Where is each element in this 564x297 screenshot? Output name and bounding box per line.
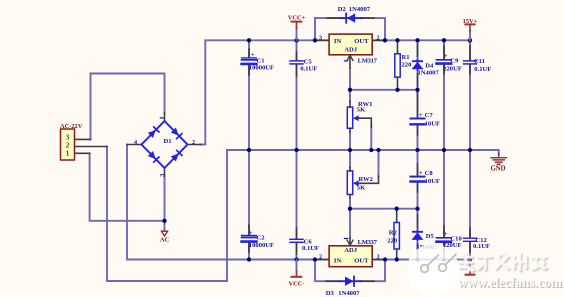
svg-text:GND: GND bbox=[490, 166, 505, 173]
R1 pin stubs bbox=[397, 40, 399, 90]
D5 pin stubs bbox=[417, 214, 419, 256]
junction dots bottom rail bbox=[247, 257, 472, 261]
node AC power port bbox=[160, 231, 170, 243]
svg-text:0.1UF: 0.1UF bbox=[300, 66, 317, 73]
D1 labels bbox=[134, 118, 195, 177]
svg-text:1N4007: 1N4007 bbox=[349, 6, 371, 13]
svg-text:3: 3 bbox=[319, 35, 322, 42]
wire RW2 wiper to mid rail bbox=[378, 150, 380, 177]
resistor R1 bbox=[395, 54, 412, 77]
wire RW1 wiper to mid rail bbox=[370, 126, 372, 150]
svg-text:D2: D2 bbox=[338, 6, 347, 13]
junction dots top rail bbox=[247, 38, 472, 42]
svg-text:C8: C8 bbox=[425, 170, 434, 177]
diode D3 bbox=[326, 277, 361, 297]
capacitor C10 bbox=[437, 230, 463, 249]
RW2 pin stubs bbox=[349, 167, 351, 198]
svg-text:2: 2 bbox=[377, 35, 380, 42]
svg-text:10000UF: 10000UF bbox=[249, 242, 274, 249]
op-amp U1 LM317 regulator box bbox=[319, 34, 380, 65]
wire C6 column bbox=[296, 150, 298, 239]
watermark url text bbox=[458, 275, 563, 291]
svg-text:1: 1 bbox=[66, 148, 70, 157]
D4 pin stubs bbox=[417, 44, 419, 86]
svg-text:4: 4 bbox=[134, 139, 137, 146]
svg-text:220UF: 220UF bbox=[443, 66, 462, 73]
capacitor C7 bbox=[411, 111, 440, 127]
junction dot AC node bbox=[162, 219, 166, 223]
R2 pin stubs bbox=[396, 209, 398, 260]
wire ADJ net horizontal bottom bbox=[350, 208, 418, 210]
svg-text:15V+: 15V+ bbox=[463, 18, 478, 25]
D2 pin stubs bbox=[327, 17, 374, 19]
svg-text:5K: 5K bbox=[357, 107, 366, 114]
power VCC- bbox=[289, 260, 305, 288]
wire connector pin1 to AC node bbox=[90, 153, 165, 221]
svg-text:0.1UF: 0.1UF bbox=[473, 243, 490, 250]
svg-text:C11: C11 bbox=[474, 58, 485, 65]
svg-text:ADJ: ADJ bbox=[344, 46, 358, 53]
svg-text:1N4007: 1N4007 bbox=[418, 70, 440, 77]
svg-text:+: + bbox=[419, 111, 423, 119]
diode D5 bbox=[412, 230, 439, 251]
capacitor C12 bbox=[464, 237, 491, 250]
op-amp U2 LM337 regulator box bbox=[319, 239, 380, 267]
power VCC+ bbox=[288, 14, 306, 40]
svg-text:0.1UF: 0.1UF bbox=[474, 66, 491, 73]
wire top rail bbox=[200, 40, 470, 144]
ground GND bbox=[490, 153, 506, 172]
potentiometer RW2 bbox=[347, 171, 378, 195]
svg-text:+: + bbox=[419, 169, 423, 177]
wire RW2 bottom to ADJ net bbox=[349, 198, 351, 209]
wire ADJ net horizontal top bbox=[350, 89, 418, 91]
wire C9 C10 column bbox=[443, 40, 445, 59]
svg-text:R1: R1 bbox=[402, 54, 410, 61]
capacitor C8 bbox=[411, 169, 440, 185]
svg-text:D3: D3 bbox=[326, 290, 335, 297]
power 15V- bbox=[466, 260, 475, 275]
watermark logo circle bbox=[407, 244, 460, 297]
wire C2 column bbox=[248, 150, 250, 235]
junction dots mid rail bbox=[247, 148, 472, 152]
svg-text:10UF: 10UF bbox=[425, 120, 440, 127]
svg-text:10UF: 10UF bbox=[425, 178, 440, 185]
svg-text:IN: IN bbox=[334, 38, 342, 45]
potentiometer RW1 bbox=[347, 101, 372, 128]
svg-text:D1: D1 bbox=[164, 138, 172, 145]
svg-text:VCC+: VCC+ bbox=[288, 14, 306, 21]
wire bottom rail bbox=[127, 259, 470, 261]
svg-text:3: 3 bbox=[377, 253, 380, 260]
svg-text:D4: D4 bbox=[425, 63, 434, 70]
svg-text:www.elecfans.com: www.elecfans.com bbox=[458, 275, 562, 290]
wire LM317 ADJ down bbox=[349, 68, 351, 101]
svg-text:OUT: OUT bbox=[354, 38, 369, 45]
wire C1 column bbox=[248, 40, 250, 57]
wire C11 C12 column bbox=[469, 40, 471, 60]
svg-text:+: + bbox=[249, 229, 253, 237]
LM337 pin stubs bbox=[315, 238, 385, 260]
capacitor C9 bbox=[437, 52, 462, 72]
svg-text:+: + bbox=[444, 230, 448, 238]
svg-text:LM337: LM337 bbox=[358, 239, 378, 246]
wire D2 bypass loop bbox=[315, 18, 340, 40]
connector J AC-22V pin stubs bbox=[75, 139, 108, 153]
wire LM337 ADJ up bbox=[349, 209, 351, 238]
svg-text:AC: AC bbox=[160, 237, 170, 244]
wire bridge pin4 to bottom rail bbox=[126, 145, 128, 260]
wire RW1 bottom to mid rail bbox=[349, 132, 351, 150]
svg-text:C7: C7 bbox=[425, 112, 434, 119]
wire connector pin3 to bridge top bbox=[91, 74, 165, 140]
svg-text:220: 220 bbox=[387, 238, 398, 245]
wire D4 C7 C8 D5 column bbox=[417, 40, 419, 60]
svg-text:2: 2 bbox=[192, 139, 195, 146]
svg-text:+: + bbox=[251, 51, 255, 59]
svg-text:+: + bbox=[444, 52, 448, 60]
D3 pin stubs bbox=[326, 280, 374, 282]
wire C5 column bbox=[296, 40, 298, 60]
svg-text:OUT: OUT bbox=[354, 257, 369, 264]
wire connector pin2 to mid rail bbox=[107, 147, 227, 282]
svg-text:VCC-: VCC- bbox=[289, 281, 305, 288]
RW1 pin stubs bbox=[349, 101, 351, 132]
wire mid rail bbox=[227, 150, 499, 155]
svg-text:C1: C1 bbox=[257, 57, 265, 64]
resistor R2 bbox=[387, 223, 399, 250]
svg-text:R2: R2 bbox=[389, 230, 398, 237]
wire D3 bypass loop bbox=[315, 260, 339, 282]
power 15V+ bbox=[463, 18, 478, 41]
junction dots ADJ nets bbox=[348, 88, 420, 211]
svg-text:RW2: RW2 bbox=[359, 176, 374, 183]
bridge rectifier D1 bbox=[142, 121, 188, 168]
capacitor C11 bbox=[464, 58, 492, 73]
capacitor C1 bbox=[242, 51, 274, 72]
wire bridge bottom to AC node bbox=[164, 176, 166, 230]
svg-text:C5: C5 bbox=[304, 58, 313, 65]
capacitor pin stubs C1 C2 C5 C6 C7 C8 C9 C10 C11 C12 bbox=[248, 49, 250, 75]
svg-text:ADJ: ADJ bbox=[344, 247, 358, 254]
svg-text:220: 220 bbox=[402, 62, 413, 69]
capacitor C2 bbox=[242, 229, 274, 249]
svg-text:LM317: LM317 bbox=[358, 58, 378, 65]
svg-text:2: 2 bbox=[319, 253, 322, 260]
wire mid rail to RW2 top bbox=[349, 150, 351, 167]
LM317 pin stubs bbox=[315, 40, 385, 68]
svg-text:0.1UF: 0.1UF bbox=[302, 245, 319, 252]
svg-text:IN: IN bbox=[334, 257, 342, 264]
svg-text:5K: 5K bbox=[357, 184, 366, 191]
capacitor C6 bbox=[290, 239, 319, 253]
diode D4 bbox=[412, 60, 440, 77]
svg-text:C9: C9 bbox=[450, 58, 459, 65]
diode D2 bbox=[338, 6, 371, 23]
svg-text:1N4007: 1N4007 bbox=[338, 290, 360, 297]
svg-text:D5: D5 bbox=[426, 233, 435, 240]
capacitor C5 bbox=[290, 58, 317, 72]
svg-text:AC-22V: AC-22V bbox=[60, 123, 83, 130]
bridge D1 pin stubs bbox=[127, 113, 201, 176]
svg-text:C2: C2 bbox=[257, 235, 266, 242]
connector J1 AC-22V bbox=[60, 123, 83, 160]
svg-text:10000UF: 10000UF bbox=[249, 65, 274, 72]
